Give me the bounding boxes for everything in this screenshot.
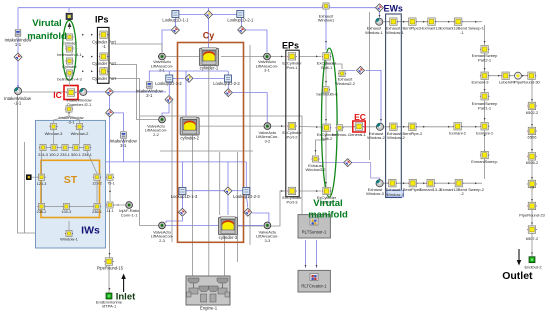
wire exwin32 stub (316, 140, 327, 155)
block 6507-2 (527, 226, 537, 234)
wire engine riser2 (208, 66, 210, 276)
junction diamond iw3 (106, 109, 114, 117)
block 6502-2 (527, 102, 537, 110)
block General-1 (354, 123, 364, 131)
block ExhaustWindow2-2 (338, 70, 346, 76)
wire arrowhead (316, 190, 318, 192)
block 500-1 (72, 144, 80, 150)
wire arrowhead (531, 177, 533, 179)
ellipse exhaust virtual manifold (322, 48, 338, 197)
svg-text:manifold: manifold (27, 31, 67, 42)
svg-text:236-2: 236-2 (37, 210, 47, 214)
svg-text:Window-3: Window-3 (366, 191, 385, 196)
group box EWs (386, 14, 402, 198)
group box ST (orange) (41, 160, 100, 217)
wire low exh chain (383, 182, 482, 184)
block InjAF-Ratio (126, 202, 133, 209)
block ValveActu-2-2 (159, 116, 166, 123)
wire cyl1 to port1 (221, 56, 286, 58)
wire st arrowhead (96, 190, 98, 192)
wire arrowhead (91, 34, 93, 36)
wire arrowhead (531, 199, 533, 201)
svg-text:RLTCreator-1: RLTCreator-1 (301, 284, 327, 289)
svg-text:-1-1: -1-1 (14, 100, 22, 105)
svg-text:Split-1: Split-1 (321, 65, 333, 70)
svg-text:Window3-2: Window3-2 (305, 167, 326, 172)
svg-text:Virutal: Virutal (313, 198, 342, 209)
wire exmani col2 (484, 130, 486, 179)
wire arrowhead (158, 56, 160, 58)
wire rlt arrows (305, 240, 307, 268)
block ExhaustWindow circle1 (376, 18, 383, 25)
svg-text:EPs: EPs (282, 40, 299, 50)
svg-text:6502-2: 6502-2 (526, 110, 539, 115)
svg-text:3-3: 3-3 (265, 238, 272, 243)
block ValveActu-2-3 (159, 222, 166, 229)
wire arrowhead (448, 126, 450, 128)
block ExmaniSweep- (480, 151, 490, 159)
wire arrowhead (82, 34, 84, 36)
svg-text:3-1: 3-1 (120, 143, 127, 148)
svg-text:manifold: manifold (308, 210, 348, 221)
wire arrowhead (305, 265, 307, 267)
wire lk13 drop (181, 162, 183, 187)
wire row2 bus blue (149, 71, 228, 81)
svg-text:6507-2: 6507-2 (526, 236, 539, 241)
wire exh split chain3 (325, 131, 327, 187)
block bellmouth-7 (335, 125, 343, 131)
wire arrowhead (91, 70, 93, 72)
wire dark sensor link (32, 176, 39, 178)
wire arrowhead (484, 118, 486, 120)
wire exh split chain2 (325, 93, 327, 124)
block CylinderSplit-2 (65, 58, 73, 64)
wire arrowhead (316, 55, 318, 57)
svg-text:ExmaniSweep-: ExmaniSweep- (471, 159, 499, 164)
wire diamond to circle2 (366, 70, 382, 122)
wire arrowhead (475, 126, 477, 128)
wire st arrowhead (117, 204, 119, 206)
svg-text:cylinder-2: cylinder-2 (180, 135, 199, 140)
wire intake top bus (18, 7, 377, 9)
wire arrow into circle (17, 86, 19, 88)
block 233-1 (61, 144, 69, 150)
block bellmouth-6 (322, 87, 330, 93)
wire arrowhead (403, 182, 405, 184)
wire ew drop (379, 11, 381, 18)
wire cyl2 to port2 (199, 125, 286, 127)
block IC chamber (66, 89, 76, 97)
svg-text:236-1: 236-1 (92, 210, 102, 214)
block ExhaustWindow circle3 (376, 180, 383, 187)
wire lookup2-1 drop (241, 18, 243, 31)
svg-text:bellmouth-4-3: bellmouth-4-3 (57, 76, 82, 81)
block LiftAreaInj (501, 72, 511, 80)
wire arrowhead (379, 15, 381, 17)
junction diamond intake mid (105, 88, 113, 96)
wire arrowhead (522, 75, 524, 77)
wire iw3 feed (113, 113, 124, 131)
svg-text:EndOut-2: EndOut-2 (524, 264, 542, 269)
wire valve2-1 to cyl1 (166, 56, 199, 58)
wire exwin1 stub (325, 9, 327, 50)
ellipse intake virtual manifold (63, 20, 77, 80)
wire arrowhead (531, 149, 533, 151)
svg-text:bellmouth-4-1: bellmouth-4-1 (57, 52, 82, 57)
wire cyl3 feed (227, 162, 229, 215)
wire ip2 out (111, 65, 158, 120)
svg-text:Part2-1: Part2-1 (478, 57, 492, 62)
wire manifold arrow (68, 23, 72, 28)
block 234-3 (39, 144, 47, 150)
svg-text:PipeRound-23: PipeRound-23 (519, 212, 545, 217)
svg-text:Lookup1D-1-1: Lookup1D-1-1 (162, 18, 189, 23)
svg-text:Lookup1D-1-3: Lookup1D-1-3 (171, 194, 198, 199)
wire row3 bus (124, 161, 247, 163)
svg-text:234-3: 234-3 (38, 153, 48, 157)
wire arrowhead (531, 124, 533, 126)
wire st arrowhead (68, 113, 70, 115)
wire arrowhead (531, 253, 533, 255)
block IntakeWindow2-1 (147, 82, 153, 88)
block 6506-2 (527, 153, 537, 161)
block 236-1 (93, 203, 101, 209)
block CylinderPort-2 (99, 53, 109, 61)
wire st arrowhead (41, 188, 43, 190)
wire arrowhead (91, 56, 93, 58)
wire st arrowhead (79, 147, 81, 149)
wire st arrowhead (41, 158, 43, 160)
wire exmani3 row (489, 75, 528, 77)
block Window-3 (49, 124, 57, 130)
svg-text:Exmani-1: Exmani-1 (476, 130, 494, 135)
wire bellmouth to IC (69, 77, 71, 87)
wire lookup1-1 drop (174, 18, 176, 31)
svg-text:Exmani13-: Exmani13- (422, 26, 442, 31)
svg-text:Part1-1: Part1-1 (478, 105, 492, 110)
block ValveActu-3-2 (264, 123, 271, 130)
wire arrowhead (448, 182, 450, 184)
wire engine riser3 (224, 236, 226, 276)
block ExhaustWindow circle2 (376, 123, 383, 130)
block 234-1 (83, 144, 91, 150)
wire st arrowhead (68, 226, 70, 228)
wire main flow down (109, 95, 111, 173)
wire left outer riser (24, 142, 26, 233)
block ValveActu-3-1 (264, 53, 271, 60)
svg-text:3-2: 3-2 (265, 138, 272, 143)
block Exmani-2 (453, 123, 463, 131)
block 6506 (527, 127, 537, 135)
svg-text:EC: EC (354, 112, 366, 122)
wire arrowhead (484, 150, 486, 152)
wire st arrowhead (53, 120, 55, 122)
svg-text:100-2: 100-2 (49, 153, 59, 157)
wire arrowhead (484, 41, 486, 43)
wire arrowhead (423, 21, 425, 23)
svg-text:Cy: Cy (203, 31, 215, 41)
block 236-2 (37, 203, 45, 209)
junction diamond v23 (178, 208, 186, 216)
block PlenumTPA (66, 13, 72, 19)
block RLTSensor-1 (298, 215, 330, 238)
wire rlt sense (140, 116, 303, 214)
wire arrowhead (325, 81, 327, 83)
block CylinderSplit-1 (65, 34, 73, 40)
block bellmouth-4-3 (65, 70, 73, 76)
block ExhaustWindow3-2 (311, 156, 319, 162)
block Lookup1D-1-1 (172, 11, 179, 18)
wire st right flow (109, 181, 111, 201)
wire valve2-3 feed (181, 195, 183, 208)
wire st arrowhead (109, 190, 111, 192)
svg-text:Lookup1D-1-2: Lookup1D-1-2 (155, 81, 182, 86)
block ExmaniSweepPart1-1 (480, 93, 490, 101)
block BentPipe-2 (408, 123, 418, 131)
svg-text:Lookup1D-2-2: Lookup1D-2-2 (213, 81, 240, 86)
group box Cy (cylinders) (178, 43, 244, 243)
block cylinder-1 (200, 48, 219, 66)
svg-text:Split-2: Split-2 (321, 136, 333, 141)
wire arrowhead (403, 126, 405, 128)
block IntakeWindow-1-1 circle (14, 87, 21, 94)
svg-text:ST: ST (64, 174, 78, 186)
block Window-1 (65, 230, 73, 236)
wire cyl2 feed (185, 71, 187, 116)
svg-text:75-1: 75-1 (107, 182, 115, 186)
block Exmani13-2 (426, 179, 436, 187)
block ExhaustWindow-2 (389, 123, 399, 131)
wire arrowhead (380, 119, 382, 121)
wire arrowhead (315, 150, 317, 152)
wire arrowhead (325, 41, 327, 43)
block ExCylinderPort-3 (287, 187, 297, 195)
wire rlt arrows2 (316, 240, 318, 268)
wire arrowhead (531, 99, 533, 101)
wire mid riser x172 (171, 100, 173, 242)
wire arrowhead (281, 190, 283, 192)
wire arrowhead (82, 56, 84, 58)
wire port3 to split3 (299, 190, 321, 192)
wire st wires (53, 130, 55, 144)
wire arrowhead (531, 223, 533, 225)
junction diamond EWs (376, 4, 384, 12)
svg-text:Cylinder Port: Cylinder Port (92, 76, 117, 81)
svg-text:bellmou...: bellmou... (332, 132, 349, 137)
wire intake bus mid (87, 91, 166, 93)
wire arrowhead (316, 265, 318, 267)
wire lk12 drop (168, 71, 170, 95)
svg-text:79: 79 (530, 184, 535, 189)
wire right riser (249, 45, 251, 245)
block RLTCreator-1 (298, 270, 330, 292)
svg-text:11-1: 11-1 (106, 209, 113, 213)
wire arrowhead (109, 288, 111, 290)
block Exmani-1 (480, 123, 490, 131)
svg-text:Conn-1-1: Conn-1-1 (121, 212, 138, 217)
wire arrowhead (484, 89, 486, 91)
block Engine-1 (186, 276, 230, 305)
block EndEnvironmentTPA-1 (106, 293, 112, 299)
wire st arrowhead (58, 206, 60, 208)
svg-text:6506-2: 6506-2 (526, 160, 539, 165)
wire mid horizontal (160, 150, 253, 152)
svg-text:PipeRound-15: PipeRound-15 (97, 265, 124, 270)
block IntakeWindow-3-1 top (65, 106, 73, 112)
svg-text:General-1: General-1 (348, 132, 367, 137)
svg-text:-3-1: -3-1 (67, 120, 75, 125)
wire arrowhead (498, 75, 500, 77)
block cylinder-2 (180, 117, 199, 135)
block Exmani-3 (480, 72, 490, 80)
svg-text:Window-2: Window-2 (367, 135, 386, 140)
block dark sensor (26, 175, 31, 180)
svg-text:Cylinder: Cylinder (62, 64, 77, 69)
svg-text:500-1: 500-1 (71, 153, 81, 157)
group box IWs (intake windows) (36, 120, 106, 248)
block ValveActu-2-1 (159, 53, 166, 60)
wire row3 lk links (186, 190, 224, 192)
block CylinderPort-3 (99, 68, 109, 76)
svg-text:EWs: EWs (383, 4, 403, 14)
svg-text:RLTSensor-1: RLTSensor-1 (302, 230, 327, 235)
block BentPipe3-2 (408, 179, 418, 187)
svg-text:234-1: 234-1 (82, 153, 92, 157)
svg-text:2-1: 2-1 (146, 93, 153, 98)
svg-text:Engine-1: Engine-1 (200, 305, 218, 310)
svg-text:1-1: 1-1 (15, 42, 22, 47)
svg-text:3-1: 3-1 (264, 68, 271, 73)
wire intake window chain (17, 37, 19, 87)
svg-text:Outlet: Outlet (502, 270, 533, 282)
box EC (red) (353, 121, 365, 132)
junction diamond row3 (224, 187, 232, 195)
wire win22 to diamond (342, 69, 356, 71)
svg-text:Virutal: Virutal (32, 18, 61, 29)
wire pipe15 flow (109, 209, 111, 258)
wire IC to chamber (75, 91, 79, 93)
svg-text:Lookup1D-2-3: Lookup1D-2-3 (233, 194, 260, 199)
block ExCylinderPort-1 (287, 53, 297, 61)
svg-text:IWs: IWs (81, 225, 100, 237)
svg-text:Window1: Window1 (318, 18, 335, 23)
svg-text:Inlet: Inlet (116, 291, 136, 302)
wire lookup row1 (179, 14, 237, 16)
wire iw3 down (97, 139, 124, 162)
svg-text:Window-1: Window-1 (60, 237, 79, 242)
wire ec row (343, 126, 480, 128)
wire arrowhead (423, 126, 425, 128)
wire valve3-3 feed (246, 195, 248, 208)
block Lookup1D-2-2 (225, 75, 232, 82)
wire arrowhead (325, 182, 327, 184)
block chamber circle (80, 88, 87, 95)
group box EPs (286, 50, 299, 197)
wire arrowhead (423, 182, 425, 184)
block IntakeWindow1-1 (15, 30, 21, 36)
block BentPipe3-1 (408, 18, 418, 26)
wire cylinder1 feed (208, 8, 210, 51)
junction diamond intake (14, 53, 22, 61)
wire arrowhead (316, 126, 318, 128)
junction diamond window2 (357, 66, 365, 74)
wire valve2-2 feed (162, 104, 169, 116)
svg-text:PipeRound-30: PipeRound-30 (514, 80, 540, 85)
wire arrowhead (484, 68, 486, 70)
block IntakeWindow3-1 (121, 132, 127, 138)
svg-text:Port-3: Port-3 (287, 199, 299, 204)
wire lk23 drop (245, 162, 247, 187)
block ExCylinderSplit-2 (322, 124, 331, 132)
svg-text:cylinder-1: cylinder-1 (200, 65, 219, 70)
block Lookup1D-2-1 (237, 11, 244, 18)
block Exmani13-1 (427, 18, 436, 26)
wire valve3-2 feed (232, 93, 267, 123)
wire cyl3 col (219, 152, 221, 215)
wire valve2-3 elbow (166, 217, 182, 223)
wire ip1 out (111, 44, 162, 52)
wire st arrowhead (75, 206, 77, 208)
svg-text:cylinder-3: cylinder-3 (219, 235, 238, 240)
block Window-2 (75, 124, 83, 130)
block Lookup1D-1-3 (179, 187, 186, 194)
wire injaf line (114, 204, 125, 206)
wire valve row3 blue (166, 224, 263, 226)
svg-text:ntTPA-1: ntTPA-1 (102, 304, 117, 309)
wire lk22 drop (227, 71, 229, 89)
junction diamond row2 (185, 74, 193, 82)
junction diamond v32 (224, 89, 232, 97)
label ExhaustWindow-3 (387, 190, 404, 197)
block round-30 (515, 72, 522, 79)
wire port1 to split1 (299, 55, 321, 57)
wire arrowhead (475, 182, 477, 184)
wire lk22 line (194, 77, 224, 79)
junction diamond L21 (238, 26, 246, 34)
svg-text:Window-2: Window-2 (71, 131, 90, 136)
wire ip3 out (111, 79, 158, 226)
svg-text:100-3: 100-3 (62, 210, 72, 214)
block ExhaustWindow-1 (389, 18, 399, 26)
wire st arrowhead (96, 160, 98, 162)
wire lk12 arrowline (173, 77, 184, 79)
svg-text:Window-3: Window-3 (386, 192, 405, 197)
block Exmani13BendSweep-2 (454, 179, 464, 187)
wire exwin22 stub (326, 64, 342, 69)
wire port2 to split2 (299, 126, 321, 129)
wire st arrowhead (57, 147, 59, 149)
block 75-1 (106, 174, 114, 180)
junction diamond top (205, 11, 213, 19)
block ExCylinderPort-2 (287, 122, 297, 130)
svg-text:BentPipe-2: BentPipe-2 (403, 131, 424, 136)
svg-text:BentPipe3-: BentPipe3- (403, 26, 423, 31)
wire valve2-1 feed (162, 30, 175, 52)
wire arrowhead (403, 21, 405, 23)
svg-text:Port-2: Port-2 (287, 134, 299, 139)
svg-text:IPs: IPs (95, 15, 109, 25)
svg-text:Window-1: Window-1 (365, 30, 384, 35)
wire arrowhead (82, 70, 84, 72)
block ExmaniSweepPart2-1 (480, 46, 490, 54)
wire arrowhead (325, 119, 327, 121)
svg-text:Lookup1D-2-1: Lookup1D-2-1 (227, 18, 254, 23)
block PipeRound-30 (527, 72, 536, 80)
block 100-2 (50, 144, 58, 150)
junction diamond v22 (165, 96, 173, 104)
box IC (red) (64, 86, 78, 100)
block ExCylinderSplit-3 (322, 187, 331, 195)
